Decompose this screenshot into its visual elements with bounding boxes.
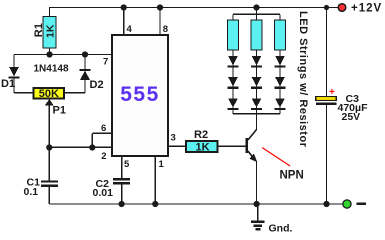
resistor R2 bbox=[186, 129, 217, 153]
diode D1 bbox=[1, 67, 20, 90]
node junction wiper/trigger bbox=[46, 144, 52, 150]
node junction emitter/ground rail bbox=[254, 201, 260, 207]
svg-text:+: + bbox=[329, 87, 335, 98]
LED D3 string1 bbox=[228, 56, 239, 67]
node junction R1/rail bbox=[46, 51, 52, 57]
svg-text:6: 6 bbox=[101, 123, 106, 134]
ground symbol bbox=[251, 204, 292, 235]
svg-text:3: 3 bbox=[171, 133, 176, 144]
wire pin 5 lead bbox=[121, 157, 123, 179]
wire R1 top lead bbox=[49, 8, 51, 18]
resistor LED string 2 bbox=[251, 20, 262, 50]
capacitor C1 bbox=[24, 177, 59, 199]
svg-text:7: 7 bbox=[103, 57, 108, 68]
wire D1 top lead bbox=[13, 55, 15, 68]
node junction pin6 branch bbox=[89, 144, 95, 150]
resistor LED string 3 bbox=[275, 20, 286, 50]
LED D6 string2 bbox=[251, 56, 262, 67]
pin 2 label bbox=[101, 151, 106, 162]
wire C1 top lead bbox=[48, 148, 50, 181]
svg-text:8: 8 bbox=[163, 24, 168, 35]
svg-text:+12V: +12V bbox=[351, 3, 382, 15]
LED D7 string2 bbox=[251, 77, 262, 88]
node corner top right bbox=[324, 5, 329, 10]
wire trigger to pin 2 bbox=[49, 146, 111, 148]
wire LED footer bbox=[233, 113, 280, 115]
wire top +V rail bbox=[49, 7, 339, 9]
pin 1 label bbox=[159, 159, 165, 170]
wire pin 6 branch bbox=[92, 133, 111, 147]
node junction C3/ground rail bbox=[323, 201, 329, 207]
LED D11 string3 bbox=[275, 98, 286, 109]
svg-text:25V: 25V bbox=[342, 111, 361, 123]
pin 6 label bbox=[101, 123, 106, 134]
wire LED header bbox=[233, 14, 280, 20]
node junction pin8/rail bbox=[157, 4, 163, 10]
svg-text:555: 555 bbox=[120, 83, 160, 106]
LED D5 string1 bbox=[228, 98, 239, 109]
pin 5 label bbox=[124, 159, 130, 170]
wire emitter lead bbox=[256, 161, 258, 204]
svg-text:1K: 1K bbox=[45, 24, 57, 38]
transistor Q1 NPN bbox=[245, 130, 257, 163]
wire D1 bottom lead bbox=[14, 78, 33, 93]
wire LED header drop bbox=[256, 8, 258, 15]
LED D9 string3 bbox=[275, 56, 286, 67]
wire pin 4 lead bbox=[123, 8, 125, 35]
svg-text:0.01: 0.01 bbox=[93, 187, 114, 199]
LED D10 string3 bbox=[275, 77, 286, 88]
terminal +12V bbox=[338, 3, 382, 15]
capacitor C2 bbox=[93, 178, 131, 199]
wire +V down to C3 bbox=[326, 8, 328, 97]
svg-text:2: 2 bbox=[101, 151, 106, 162]
resistor R1 bbox=[33, 17, 57, 49]
wire mid rail to pin 7 bbox=[14, 54, 112, 56]
wire LED string 2 bbox=[256, 50, 258, 114]
wire collector lead bbox=[256, 114, 258, 130]
svg-text:1K: 1K bbox=[196, 142, 210, 154]
svg-text:4: 4 bbox=[127, 24, 133, 35]
wire C1 bottom lead bbox=[48, 187, 50, 204]
svg-text:Gnd.: Gnd. bbox=[269, 223, 293, 235]
label LED Strings w/ Resistor bbox=[297, 11, 309, 148]
svg-text:D1: D1 bbox=[1, 78, 15, 90]
wire R1 bottom lead bbox=[49, 48, 51, 55]
wire LED string 1 bbox=[232, 50, 234, 114]
pin 8 label bbox=[163, 24, 168, 35]
LED D4 string1 bbox=[228, 77, 239, 88]
label 1N4148 bbox=[34, 64, 69, 75]
svg-text:P1: P1 bbox=[53, 105, 66, 117]
node junction D2/rail bbox=[82, 51, 88, 57]
resistor LED string 1 bbox=[228, 20, 239, 50]
capacitor C3 electrolytic bbox=[316, 87, 368, 123]
terminal GND negative bbox=[343, 200, 366, 208]
label NPN with pointer bbox=[262, 148, 304, 182]
svg-text:50K: 50K bbox=[39, 88, 59, 100]
svg-text:LED Strings w/ Resistor: LED Strings w/ Resistor bbox=[297, 11, 309, 148]
wire D2 bottom lead bbox=[65, 80, 86, 93]
wire pin 3 to R2 bbox=[168, 145, 186, 147]
pin 4 label bbox=[127, 24, 133, 35]
wire C3 bottom lead bbox=[326, 105, 328, 204]
node junction pin1/ground rail bbox=[152, 201, 158, 207]
svg-text:5: 5 bbox=[124, 159, 130, 170]
wire pin 8 lead bbox=[159, 8, 161, 35]
svg-text:1: 1 bbox=[159, 159, 165, 170]
svg-text:R2: R2 bbox=[194, 129, 208, 141]
wire ground rail bbox=[49, 203, 342, 205]
svg-text:0.1: 0.1 bbox=[24, 186, 39, 198]
wire R2 to base bbox=[217, 145, 245, 147]
node junction LED rail bbox=[253, 4, 259, 10]
pin 3 label bbox=[171, 133, 176, 144]
wiper arrow P1 bbox=[45, 99, 66, 148]
wire LED string 3 bbox=[279, 50, 281, 114]
svg-text:D2: D2 bbox=[90, 79, 104, 91]
diode D2 bbox=[80, 70, 104, 91]
LED D8 string2 bbox=[251, 98, 262, 109]
IC U1 555 bbox=[112, 35, 168, 156]
wire pin 1 lead bbox=[154, 157, 156, 205]
node junction C2/ground rail bbox=[119, 201, 125, 207]
wire D2 top lead bbox=[84, 55, 86, 70]
pin 7 label bbox=[103, 57, 108, 68]
svg-text:1N4148: 1N4148 bbox=[34, 64, 69, 75]
svg-text:NPN: NPN bbox=[280, 170, 304, 182]
wire C2 bottom lead bbox=[121, 184, 123, 204]
node junction pin4/rail bbox=[121, 4, 127, 10]
potentiometer P1 50K bbox=[34, 88, 65, 100]
svg-text:R1: R1 bbox=[33, 23, 45, 37]
